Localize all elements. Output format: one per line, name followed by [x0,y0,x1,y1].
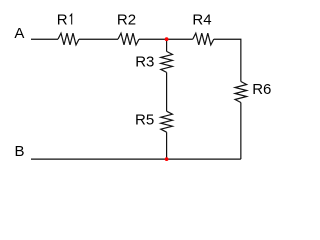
wire A to R1 [31,38,58,40]
svg-text:R5: R5 [135,112,154,129]
svg-text:R6: R6 [252,81,271,98]
resistor R1 [58,33,79,45]
wire R3 to R5 [166,72,168,111]
wire node C to R4 [167,38,193,40]
wire R4 to right rail top [214,39,241,81]
junction node D [165,157,169,161]
svg-text:R3: R3 [135,54,154,71]
label R1 [57,12,72,29]
wire R2 to node C [139,38,167,40]
wire R6 to bottom rail [240,103,242,160]
label R4 [192,12,211,29]
resistor R3 [161,51,173,72]
wire node C down to R3 [166,39,168,51]
svg-text:A: A [14,25,24,42]
node B [15,143,25,160]
resistor R4 [193,33,214,45]
node A [14,25,24,42]
svg-text:B: B [15,143,25,160]
resistor R5 [161,111,173,132]
svg-text:R2: R2 [117,12,136,29]
wire R1 to R2 [79,38,118,40]
label R2 [117,12,136,29]
junction node C [165,37,169,41]
label R6 [252,81,271,98]
resistor R2 [118,33,139,45]
label R5 [135,112,154,129]
svg-text:R4: R4 [192,12,211,29]
label R3 [135,54,154,71]
resistor R6 [235,82,247,103]
wire R5 to node D [166,132,168,159]
svg-text:R: R [57,12,68,29]
wire B rail [31,158,241,160]
